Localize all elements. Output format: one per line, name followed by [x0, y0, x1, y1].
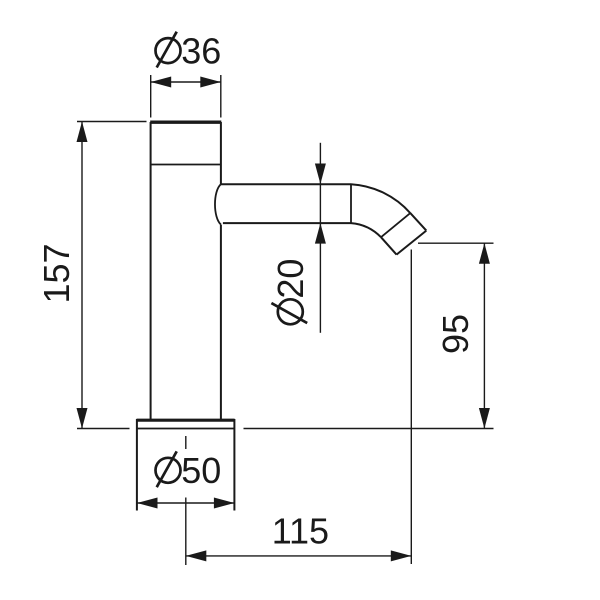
base left edge [136, 419, 138, 511]
svg-text:36: 36 [181, 30, 221, 71]
base seat line [137, 428, 235, 430]
dimension 95 line [483, 243, 485, 428]
dimension 95 top arrowhead [479, 243, 490, 264]
dimension Ø50 left arrowhead [137, 498, 158, 509]
outlet end face [397, 231, 427, 255]
centerline lower segment [185, 498, 187, 566]
dimension 115 left arrowhead [186, 550, 207, 561]
svg-text:95: 95 [435, 314, 476, 354]
dimension 115 line [186, 555, 411, 557]
dimension 157 extension line top [77, 121, 147, 123]
spout-body intersection arc [215, 184, 221, 224]
dimension 157 top arrowhead [77, 122, 88, 143]
dimension 115 label [272, 511, 329, 552]
dimension 95 bottom arrowhead [479, 408, 490, 429]
dimension Ø36 extension line right [220, 75, 222, 118]
dimension 95 extension line bottom [244, 428, 494, 430]
spout top outline [221, 183, 351, 185]
svg-text:20: 20 [270, 259, 311, 299]
cap bottom seam line [151, 164, 221, 166]
faucet body left edge [150, 122, 152, 419]
base right edge [233, 419, 235, 511]
dimension 157 extension line bottom [77, 428, 130, 430]
dimension 157 bottom arrowhead [77, 408, 88, 429]
dimension Ø36 left arrowhead [151, 77, 172, 88]
dimension Ø20 line upper [319, 143, 321, 184]
bend outer arc [351, 184, 410, 213]
dimension Ø50 label [156, 450, 222, 491]
dimension 157 line [81, 122, 83, 429]
outlet outer edge [410, 213, 426, 231]
dimension Ø50 right arrowhead [214, 498, 235, 509]
dimension Ø36 right arrowhead [200, 77, 221, 88]
svg-text:115: 115 [272, 511, 329, 552]
outlet seam [381, 213, 410, 237]
dimension Ø20 down arrowhead [315, 164, 326, 185]
spout bend seam [350, 184, 352, 223]
dimension Ø20 up arrowhead [315, 223, 326, 244]
dimension 95 label [435, 314, 476, 354]
faucet body top cap thick edge [150, 120, 221, 123]
dimension 115 extension line right [410, 250, 412, 565]
dimension Ø20 line crossing spout [319, 184, 321, 223]
outlet inner edge [381, 237, 397, 254]
dimension Ø20 label [270, 259, 311, 325]
base flange top thick edge [137, 419, 235, 422]
dimension Ø36 line [151, 81, 221, 83]
dimension 115 right arrowhead [391, 550, 412, 561]
dimension Ø20 line lower [319, 223, 321, 333]
svg-text:50: 50 [181, 450, 221, 491]
dimension Ø36 label [156, 30, 222, 71]
faucet body right edge upper [220, 122, 222, 184]
dimension 157 label [36, 243, 77, 303]
bend inner arc [351, 223, 381, 237]
dimension Ø50 line [137, 502, 234, 504]
centerline dash [185, 436, 187, 449]
svg-text:157: 157 [36, 243, 77, 303]
faucet body right edge lower [220, 225, 222, 420]
dimension 95 extension line top [418, 242, 494, 244]
spout bottom outline [223, 222, 351, 224]
dimension Ø36 extension line left [150, 75, 152, 118]
